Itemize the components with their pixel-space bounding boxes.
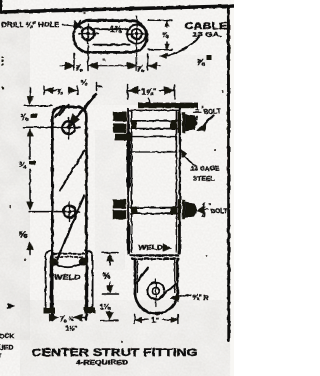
svg-text:⅝: ⅝ bbox=[162, 30, 169, 39]
lug bottom arc bbox=[135, 293, 177, 314]
svg-text:⅞: ⅞ bbox=[197, 57, 206, 68]
paper background bbox=[0, 0, 234, 376]
svg-text:1: 1 bbox=[195, 106, 199, 113]
svg-text:R: R bbox=[204, 295, 209, 302]
margin text OCK / UED bbox=[0, 333, 14, 359]
stray tick mark bbox=[97, 83, 102, 91]
lug right wall bbox=[176, 260, 179, 295]
plan hole H2 with boss rings bbox=[127, 25, 146, 44]
svg-text:⅝": ⅝" bbox=[193, 293, 203, 302]
label 1/4 BOLT lower bbox=[202, 203, 228, 220]
lug hatch stroke left bbox=[135, 268, 148, 285]
svg-text:UED: UED bbox=[0, 345, 13, 352]
interior line mid bbox=[131, 151, 177, 153]
svg-text:⅚: ⅚ bbox=[103, 272, 110, 281]
leader 13 gage to wall bbox=[184, 155, 197, 167]
svg-text:1": 1" bbox=[152, 316, 160, 325]
label DRILL 3/8 HOLE bbox=[2, 20, 60, 29]
bolt B2 right plates bbox=[178, 199, 181, 219]
svg-text:BOLT: BOLT bbox=[204, 109, 221, 116]
drill leader to front hole bbox=[70, 94, 96, 126]
left chain tick at hole F2 bbox=[29, 211, 80, 213]
interior line below bolt1 bbox=[131, 136, 177, 138]
weld side leader bbox=[163, 246, 168, 249]
side view top cable bar bbox=[138, 103, 198, 109]
svg-text:⅞: ⅞ bbox=[76, 64, 83, 73]
fork outer prong left bbox=[46, 251, 53, 309]
label 5/8 R with leader bbox=[173, 295, 192, 298]
left margin blob top bbox=[0, 0, 3, 13]
svg-text:OCK: OCK bbox=[0, 333, 14, 340]
plan view inner slot line top bbox=[94, 28, 130, 30]
fork bottom dimension bbox=[52, 317, 87, 319]
leader from HOLE to plate hole bbox=[63, 25, 76, 27]
svg-text:4: 4 bbox=[195, 115, 199, 122]
svg-text:⅚: ⅚ bbox=[19, 230, 27, 240]
bolt B2 shaft bbox=[131, 207, 177, 209]
lug hole bbox=[148, 283, 165, 300]
svg-text:1⅜: 1⅜ bbox=[110, 25, 123, 34]
prong foot right bbox=[84, 307, 96, 313]
bolt B2 hex head bbox=[185, 202, 196, 217]
front view top dimension bbox=[43, 86, 45, 95]
hatch long stroke 1 bbox=[60, 151, 85, 191]
plan view inner slot line bottom bbox=[94, 44, 130, 46]
front hole F1 bbox=[62, 121, 75, 134]
svg-text:⅞: ⅞ bbox=[137, 65, 145, 74]
svg-text:STEEL: STEEL bbox=[193, 176, 214, 183]
svg-text:WELD: WELD bbox=[138, 245, 163, 252]
svg-text:⅜: ⅜ bbox=[21, 112, 29, 122]
WELD text side bbox=[138, 245, 163, 252]
svg-text:⅞: ⅞ bbox=[57, 87, 64, 96]
lug hatch stroke right bbox=[161, 285, 176, 298]
cable label bbox=[185, 21, 228, 39]
left margin chevron bbox=[8, 304, 13, 308]
front hole F2 bbox=[64, 206, 76, 218]
label 1/4 BOLT upper bbox=[195, 106, 221, 123]
front view piece outline bbox=[52, 107, 86, 320]
side view top edge bbox=[128, 109, 180, 111]
dimension row under plate bbox=[73, 54, 75, 71]
svg-text:¾: ¾ bbox=[19, 160, 27, 170]
title CENTER STRUT FITTING bbox=[32, 347, 198, 367]
fraction mark 7/8 b right margin bbox=[197, 55, 212, 68]
fork hidden dashed line bbox=[54, 253, 84, 255]
bolt B2 left nut bbox=[113, 199, 126, 208]
svg-text:BOLT: BOLT bbox=[211, 208, 228, 215]
chain between views bbox=[102, 252, 118, 254]
extension line through H2 bbox=[136, 17, 138, 71]
plate inner fraction label bbox=[110, 25, 123, 34]
plate right vertical dimension bbox=[148, 19, 172, 21]
dirt specks bbox=[9, 12, 224, 343]
fork outer prong right bbox=[86, 251, 93, 309]
svg-text:WELD: WELD bbox=[54, 275, 81, 282]
lug left wall bbox=[134, 260, 137, 295]
side view top width dimension 1-5/8 bbox=[127, 85, 129, 100]
left chain tick at hole F1 bbox=[24, 126, 58, 128]
svg-text:1⅛: 1⅛ bbox=[100, 302, 111, 311]
lug bottom dimension bbox=[134, 315, 136, 324]
bolt B1 hex head bbox=[185, 114, 197, 131]
top border line bbox=[0, 6, 234, 12]
weld bead left bbox=[50, 258, 59, 266]
svg-text:1⅛": 1⅛" bbox=[66, 326, 78, 333]
side view right wall bbox=[175, 111, 177, 253]
left chain tick at piece top bbox=[24, 105, 52, 107]
svg-text:13 GAGE: 13 GAGE bbox=[191, 166, 220, 173]
left dimension chain bbox=[29, 88, 31, 104]
svg-text:CENTER STRUT FITTING: CENTER STRUT FITTING bbox=[32, 347, 198, 359]
side view left wall bbox=[127, 109, 129, 254]
cable leader curve bbox=[164, 37, 199, 56]
svg-text:1⅝": 1⅝" bbox=[142, 88, 157, 97]
label 13 GAGE STEEL bbox=[191, 166, 220, 183]
plan view plate outline bbox=[74, 21, 148, 53]
svg-text:DRILL ⅜" HOLE: DRILL ⅜" HOLE bbox=[2, 20, 60, 29]
side view left wall heavy segment bbox=[127, 134, 131, 186]
bolt B1 right plates bbox=[178, 112, 181, 134]
bolt B1 shaft bbox=[131, 120, 177, 122]
weld arc bbox=[55, 263, 83, 268]
left margin dots bbox=[1, 57, 4, 90]
right border line bbox=[227, 8, 230, 342]
WELD text front bbox=[54, 275, 81, 282]
hatch long stroke 2 bbox=[58, 196, 85, 259]
svg-text:CABLE: CABLE bbox=[185, 21, 228, 31]
plan hole H1 bbox=[82, 27, 95, 40]
hidden dashes rows at box bottom bbox=[131, 254, 179, 256]
bolt B1 left nut bbox=[113, 112, 126, 121]
prong foot left bbox=[44, 308, 56, 314]
heavy wall segments at box bottom bbox=[127, 226, 130, 253]
svg-text:13 GA.: 13 GA. bbox=[193, 33, 222, 39]
dark cap blob on left wall bbox=[115, 134, 132, 141]
svg-text:4-REQUIRED: 4-REQUIRED bbox=[76, 360, 129, 367]
weld bead right bbox=[79, 258, 88, 266]
hatch strokes near front hole bbox=[55, 107, 64, 118]
